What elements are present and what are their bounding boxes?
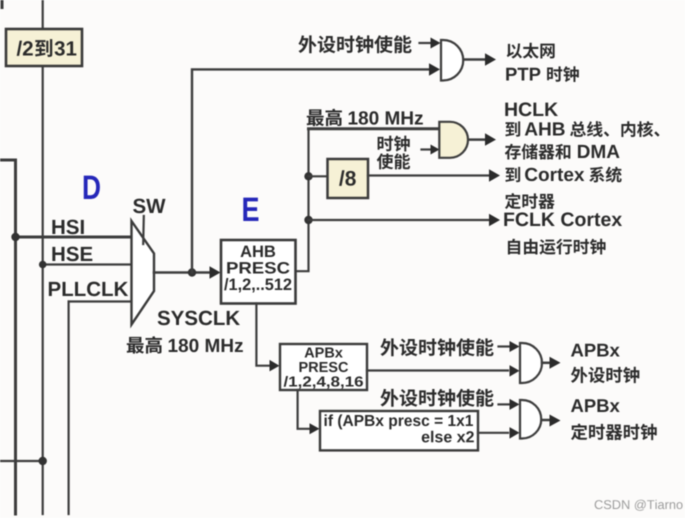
label peripheral clock enable (ethernet) [298, 35, 411, 53]
label timer (cortex) [505, 193, 555, 209]
wire SW select line into mux [142, 216, 145, 244]
arrowhead into APBx peripheral gate lower input [510, 365, 520, 377]
and-gate U4 APBx timer clock gate [520, 400, 541, 439]
wire FCLK cortex [309, 219, 490, 221]
wire APBx timer gate output [542, 419, 550, 422]
arrowhead APBx timer output [550, 415, 561, 427]
label max 180 MHz (HCLK) [307, 109, 342, 127]
arrowhead into timer multiplier box [310, 423, 320, 434]
node junction /8 tap [304, 172, 312, 180]
arrowhead HCLK output [485, 133, 496, 146]
arrowhead cortex systick [489, 169, 500, 182]
arrowhead enable APBx timer gate [510, 399, 520, 410]
wire enable stub to APBx peripheral gate [499, 345, 510, 347]
arrowhead into AHB prescaler [210, 266, 221, 279]
wire stub top-left corner [1, 0, 4, 9]
wire tap into /8 divider [309, 175, 328, 177]
node junction SYSCLK [188, 268, 196, 276]
label free running clock [508, 239, 606, 255]
label AHB [241, 246, 276, 257]
wire APBx prescaler output to peripheral gate [367, 369, 508, 371]
label to Cortex system [505, 167, 520, 182]
label PRESC (APBx) [299, 362, 348, 372]
label PLLCLK [49, 282, 128, 297]
label /8 value [339, 170, 356, 186]
node junction on HSE rail y=461 [39, 457, 47, 465]
wire HCLK gate output [469, 138, 485, 141]
label ethernet PTP clock [507, 43, 555, 59]
wire timer multiplier output to timer gate [478, 432, 508, 434]
label E section letter [243, 198, 258, 221]
and-gate U1 ethernet PTP clock gate [441, 40, 463, 81]
label peripheral clock enable (APBx peripheral) [380, 338, 493, 356]
box AHB PRESC prescaler [221, 240, 296, 304]
wire ethernet gate output [464, 58, 485, 61]
label PRESC [227, 262, 289, 274]
label to AHB bus, core [505, 121, 520, 136]
label HSE [52, 247, 92, 262]
wire HSE vertical rail x=43 [42, 0, 44, 514]
arrowhead into ethernet gate lower input [429, 63, 440, 75]
wire PLLCLK branch to mux [69, 300, 132, 302]
mux SW system clock switch trapezoid [132, 221, 155, 325]
box if APBx presc multiplier [320, 411, 478, 450]
arrowhead APBx peripheral output [550, 357, 561, 369]
label /1,2,..512 [224, 278, 291, 293]
label APBx [305, 348, 343, 358]
label APBx (peripheral) [571, 344, 620, 357]
node junction FCLK tap [304, 216, 312, 224]
label D section letter [84, 176, 100, 199]
label max 180 MHz under SYSCLK [127, 336, 162, 354]
box /8 divider [328, 159, 369, 198]
box /2到31 HSE prescaler [6, 29, 82, 66]
arrowhead FCLK [489, 214, 500, 226]
wire AHB prescaler down to APBx prescaler [256, 304, 269, 366]
wire enable stub to HCLK gate [422, 148, 432, 150]
wire APBx prescaler down to timer multiplier [298, 390, 310, 429]
wire APBx peripheral gate output [542, 362, 549, 365]
wire HSE branch to mux [43, 263, 132, 265]
label else x2 [422, 431, 474, 443]
wire /8 output to cortex systick [368, 174, 489, 176]
wire HCLK feed to gate [309, 127, 440, 130]
label peripheral clock enable (APBx timer) [380, 389, 493, 407]
wire SYSCLK mux output to AHB prescaler [154, 271, 212, 274]
label clock enable (HCLK gate) [378, 136, 410, 152]
arrowhead enable APBx peripheral gate [510, 341, 520, 352]
arrowhead enable into HCLK gate [431, 145, 440, 155]
label SYSCLK [158, 311, 240, 326]
label /1,2,4,8,16 [284, 376, 363, 389]
and-gate U2 HCLK AHB gate [439, 122, 468, 158]
and-gate U3 APBx peripheral clock gate [520, 343, 542, 383]
arrowhead ethernet output [485, 53, 496, 66]
arrowhead into APBx timer gate lower input [510, 427, 520, 439]
label HCLK [505, 102, 558, 116]
arrowhead enable into ethernet gate [431, 38, 441, 49]
wire enable stub to APBx timer gate [499, 403, 510, 405]
label FCLK Cortex [504, 212, 622, 226]
wire HSI branch to mux [16, 236, 132, 239]
wire PLLCLK vertical rail [67, 302, 69, 515]
wire stub at left edge y=461 [0, 460, 43, 462]
label timer clock [571, 424, 657, 441]
label memory and DMA [505, 144, 571, 160]
label SW [133, 199, 165, 214]
node junction HSI rail [11, 233, 19, 241]
label if (APBx presc = 1x1 [325, 414, 473, 429]
node junction HSE rail [39, 261, 47, 269]
watermark CSDN @Tiarno [595, 500, 683, 511]
wire SYSCLK riser to ethernet gate [192, 69, 428, 272]
label peripheral clock [571, 367, 639, 383]
arrowhead into APBx prescaler [270, 360, 280, 372]
box APBx PRESC prescaler [280, 344, 367, 390]
label /2到31 value [17, 41, 33, 56]
label APBx (timer) [571, 399, 620, 412]
wire enable stub to ethernet gate [420, 42, 432, 44]
wire HSI rail (thick L from left edge down) [0, 160, 16, 514]
label HSI [52, 220, 83, 235]
wire SYSCLK trunk riser x=308 [296, 129, 309, 271]
